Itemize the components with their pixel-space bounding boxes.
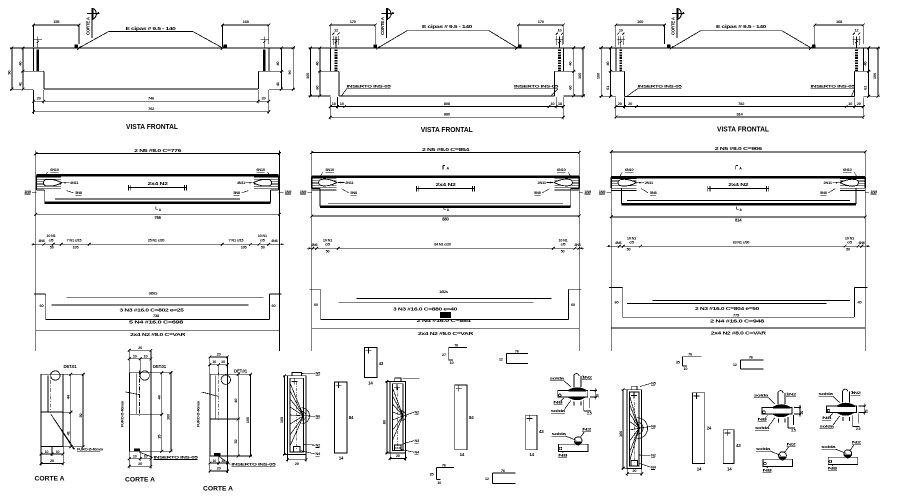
svg-text:20: 20 xyxy=(138,345,142,350)
svg-text:50: 50 xyxy=(261,246,265,250)
svg-text:10: 10 xyxy=(56,450,60,454)
svg-text:170: 170 xyxy=(350,19,357,24)
svg-text:5 N4 #16.0 C=698: 5 N4 #16.0 C=698 xyxy=(129,319,184,324)
svg-text:10 N1: 10 N1 xyxy=(558,238,567,242)
svg-text:63 N1 c/30: 63 N1 c/30 xyxy=(733,241,750,245)
svg-text:20: 20 xyxy=(217,466,221,471)
svg-text:10 N1: 10 N1 xyxy=(46,234,55,238)
svg-text:solda: solda xyxy=(756,446,771,451)
svg-text:84 N1 c/20: 84 N1 c/20 xyxy=(434,243,451,247)
svg-text:2 N5 #8.0 C=776: 2 N5 #8.0 C=776 xyxy=(134,148,182,153)
svg-text:CORTE A: CORTE A xyxy=(86,17,91,35)
svg-text:10: 10 xyxy=(683,366,687,371)
svg-text:100: 100 xyxy=(618,430,623,437)
svg-text:6N10: 6N10 xyxy=(50,167,59,172)
svg-text:168: 168 xyxy=(243,19,250,24)
svg-text:160: 160 xyxy=(637,19,644,24)
svg-text:100: 100 xyxy=(166,413,171,420)
svg-text:60: 60 xyxy=(615,300,619,305)
svg-text:10: 10 xyxy=(619,29,623,33)
svg-text:60: 60 xyxy=(272,303,276,308)
svg-text:c/5: c/5 xyxy=(325,243,330,247)
svg-text:6N10: 6N10 xyxy=(256,167,265,172)
svg-text:100: 100 xyxy=(245,416,250,423)
svg-text:CORTE A: CORTE A xyxy=(35,476,65,483)
svg-text:766: 766 xyxy=(154,215,161,220)
svg-text:1N9: 1N9 xyxy=(285,189,293,194)
svg-text:10: 10 xyxy=(221,359,225,364)
svg-text:10: 10 xyxy=(144,353,148,358)
svg-text:775: 775 xyxy=(733,313,740,318)
svg-text:50: 50 xyxy=(627,248,631,252)
svg-text:14: 14 xyxy=(368,380,373,385)
svg-text:5N8: 5N8 xyxy=(820,190,828,195)
svg-text:4N11: 4N11 xyxy=(237,180,246,185)
svg-text:FURO Ø 40mm: FURO Ø 40mm xyxy=(120,400,125,427)
svg-text:10 N1: 10 N1 xyxy=(258,234,267,238)
svg-text:DET.01: DET.01 xyxy=(234,369,248,374)
svg-text:10: 10 xyxy=(133,353,137,358)
svg-text:25 N1 c/20: 25 N1 c/20 xyxy=(148,239,165,243)
svg-text:VISTA FRONTAL: VISTA FRONTAL xyxy=(717,127,770,134)
svg-text:CORTE A: CORTE A xyxy=(380,17,385,35)
svg-text:24: 24 xyxy=(707,426,712,431)
svg-text:1Ø2s: 1Ø2s xyxy=(439,289,448,294)
svg-text:INSERTO INS-05: INSERTO INS-05 xyxy=(154,454,200,459)
svg-text:4N6: 4N6 xyxy=(574,243,580,247)
svg-text:E cipas # 9.5 - 140: E cipas # 9.5 - 140 xyxy=(126,26,177,31)
svg-text:105: 105 xyxy=(279,416,284,423)
svg-text:solda: solda xyxy=(820,424,835,429)
svg-text:20: 20 xyxy=(217,351,221,356)
svg-text:14: 14 xyxy=(727,466,732,471)
svg-text:16: 16 xyxy=(800,411,804,415)
svg-text:solda: solda xyxy=(819,391,834,396)
svg-text:10: 10 xyxy=(133,455,137,459)
svg-text:c/5: c/5 xyxy=(561,243,566,247)
svg-text:84: 84 xyxy=(349,415,354,420)
svg-text:solda: solda xyxy=(755,425,770,430)
svg-text:10: 10 xyxy=(450,360,454,365)
svg-text:FURO Ø 40mm: FURO Ø 40mm xyxy=(196,400,201,427)
svg-text:solda: solda xyxy=(821,444,836,449)
svg-text:VISTA FRONTAL: VISTA FRONTAL xyxy=(126,124,179,131)
svg-text:762: 762 xyxy=(148,106,155,111)
svg-text:2N11: 2N11 xyxy=(538,180,547,185)
svg-text:84: 84 xyxy=(469,415,474,420)
svg-text:2 N4 #16.0 C=884: 2 N4 #16.0 C=884 xyxy=(417,318,472,323)
svg-text:3 N3 #16.0 C=880 e=40: 3 N3 #16.0 C=880 e=40 xyxy=(393,306,458,311)
svg-text:50: 50 xyxy=(846,248,850,252)
svg-text:6N10: 6N10 xyxy=(843,167,852,172)
svg-text:c/5: c/5 xyxy=(260,239,265,243)
svg-text:168: 168 xyxy=(836,19,843,24)
svg-text:20: 20 xyxy=(632,468,636,473)
svg-text:12: 12 xyxy=(334,29,338,33)
svg-text:20: 20 xyxy=(295,461,299,466)
svg-text:105: 105 xyxy=(73,246,79,250)
svg-text:105: 105 xyxy=(241,246,247,250)
svg-text:10: 10 xyxy=(437,480,441,485)
svg-text:2 N5 #8.0 C=906: 2 N5 #8.0 C=906 xyxy=(715,146,763,151)
svg-text:2x4 N2 #8.0 C=VAR: 2x4 N2 #8.0 C=VAR xyxy=(418,331,475,336)
svg-text:INSERTO INS-05: INSERTO INS-05 xyxy=(514,84,560,89)
svg-text:solda: solda xyxy=(754,393,769,398)
svg-text:60: 60 xyxy=(40,303,44,308)
svg-text:2.5: 2.5 xyxy=(856,427,861,431)
svg-text:E cipas # 9.5 - 140: E cipas # 9.5 - 140 xyxy=(422,24,473,29)
svg-text:1N2: 1N2 xyxy=(786,392,797,397)
svg-text:solda: solda xyxy=(552,431,567,436)
svg-text:27: 27 xyxy=(442,352,446,357)
svg-text:1N9: 1N9 xyxy=(24,189,32,194)
svg-text:100: 100 xyxy=(577,72,582,79)
svg-text:2x4 N2 #8.0 C=VAR: 2x4 N2 #8.0 C=VAR xyxy=(130,332,187,337)
svg-text:5N8: 5N8 xyxy=(534,190,542,195)
svg-text:INSERTO INS-05: INSERTO INS-05 xyxy=(347,84,393,89)
svg-text:CORTE A: CORTE A xyxy=(671,17,676,35)
svg-text:DET.01: DET.01 xyxy=(64,364,78,369)
svg-text:7 N1 c/15: 7 N1 c/15 xyxy=(229,239,244,243)
svg-text:6N10: 6N10 xyxy=(625,167,634,172)
svg-text:4N6: 4N6 xyxy=(38,239,44,243)
svg-text:4N6: 4N6 xyxy=(858,241,864,245)
svg-text:10: 10 xyxy=(212,359,216,364)
svg-text:7 N1 c/15: 7 N1 c/15 xyxy=(67,239,82,243)
svg-text:50: 50 xyxy=(50,246,54,250)
svg-text:CORTE A: CORTE A xyxy=(203,486,233,493)
svg-text:E cipas # 9.5 - 140: E cipas # 9.5 - 140 xyxy=(716,24,767,29)
svg-text:43: 43 xyxy=(736,443,741,448)
svg-text:50: 50 xyxy=(561,250,565,254)
svg-text:1N9: 1N9 xyxy=(599,189,607,194)
svg-text:2 N4 #16.0 C=948: 2 N4 #16.0 C=948 xyxy=(710,318,765,323)
svg-text:738: 738 xyxy=(153,313,160,318)
svg-text:50: 50 xyxy=(326,250,330,254)
svg-text:100: 100 xyxy=(305,72,310,79)
svg-text:5N8: 5N8 xyxy=(650,190,658,195)
svg-text:2N11: 2N11 xyxy=(345,180,354,185)
svg-text:2.5: 2.5 xyxy=(791,429,796,433)
svg-text:16: 16 xyxy=(596,394,600,398)
svg-text:4N6: 4N6 xyxy=(311,243,317,247)
svg-text:2.5: 2.5 xyxy=(587,412,592,416)
svg-text:5N8: 5N8 xyxy=(350,190,358,195)
svg-text:880: 880 xyxy=(444,112,451,117)
svg-text:DET.01: DET.01 xyxy=(153,364,167,369)
svg-text:2N11: 2N11 xyxy=(645,180,654,185)
svg-text:2x4 N2 #8.0 C=VAR: 2x4 N2 #8.0 C=VAR xyxy=(711,331,768,336)
svg-text:4N11: 4N11 xyxy=(70,180,79,185)
svg-text:INSERTO INS-05: INSERTO INS-05 xyxy=(638,84,684,89)
svg-text:10: 10 xyxy=(45,450,49,454)
svg-text:6N10: 6N10 xyxy=(325,167,334,172)
svg-text:20: 20 xyxy=(50,458,54,463)
svg-text:170: 170 xyxy=(538,19,545,24)
svg-text:1N9: 1N9 xyxy=(584,189,592,194)
svg-text:14: 14 xyxy=(529,452,534,457)
svg-text:43: 43 xyxy=(379,361,384,366)
svg-text:746: 746 xyxy=(148,96,155,101)
svg-text:3Ø2s: 3Ø2s xyxy=(149,291,158,296)
svg-text:2 N3 #16.0 C=804 e=50: 2 N3 #16.0 C=804 e=50 xyxy=(695,306,760,311)
svg-text:20: 20 xyxy=(138,461,142,466)
svg-text:814: 814 xyxy=(737,111,744,116)
svg-text:solda: solda xyxy=(550,376,565,381)
svg-text:2x4 N2: 2x4 N2 xyxy=(148,181,169,186)
svg-text:20: 20 xyxy=(396,453,400,458)
svg-text:10 N1: 10 N1 xyxy=(323,238,332,242)
svg-text:4N6: 4N6 xyxy=(271,239,277,243)
svg-text:solda: solda xyxy=(551,408,566,413)
svg-text:INSERTO INS-05: INSERTO INS-05 xyxy=(811,84,857,89)
svg-text:5N8: 5N8 xyxy=(233,190,241,195)
svg-text:16: 16 xyxy=(864,410,868,414)
svg-text:c/5: c/5 xyxy=(847,241,852,245)
svg-text:CORTE A: CORTE A xyxy=(125,477,155,484)
svg-text:1N2: 1N2 xyxy=(851,390,862,395)
svg-text:6N10: 6N10 xyxy=(557,167,566,172)
svg-text:10 N1: 10 N1 xyxy=(845,236,854,240)
svg-text:INSERTO INS-05: INSERTO INS-05 xyxy=(231,462,277,467)
svg-text:3 N3 #16.0 C=802 e=25: 3 N3 #16.0 C=802 e=25 xyxy=(120,307,185,312)
svg-text:10: 10 xyxy=(558,29,562,33)
svg-text:12: 12 xyxy=(855,29,859,33)
svg-text:14: 14 xyxy=(339,456,344,461)
svg-text:c/5: c/5 xyxy=(49,239,54,243)
svg-text:10: 10 xyxy=(212,459,216,463)
svg-text:814: 814 xyxy=(735,218,742,223)
svg-text:14: 14 xyxy=(460,452,465,457)
svg-text:10 N1: 10 N1 xyxy=(627,236,636,240)
svg-text:2 N5 #8.0 C=854: 2 N5 #8.0 C=854 xyxy=(422,147,470,152)
svg-text:60: 60 xyxy=(571,302,575,307)
svg-text:782: 782 xyxy=(738,101,745,106)
svg-text:c/5: c/5 xyxy=(629,241,634,245)
svg-text:2x4 N2: 2x4 N2 xyxy=(436,182,457,187)
svg-text:4N6: 4N6 xyxy=(615,241,621,245)
svg-text:5N8: 5N8 xyxy=(75,190,83,195)
svg-text:40: 40 xyxy=(858,300,862,305)
svg-text:155: 155 xyxy=(53,19,60,24)
svg-text:1N9: 1N9 xyxy=(870,189,878,194)
svg-text:100: 100 xyxy=(596,72,601,79)
svg-text:1N9: 1N9 xyxy=(300,189,308,194)
svg-text:100: 100 xyxy=(872,72,877,79)
svg-text:60: 60 xyxy=(314,302,318,307)
svg-text:2N11: 2N11 xyxy=(824,180,833,185)
svg-text:VISTA FRONTAL: VISTA FRONTAL xyxy=(421,127,474,134)
svg-text:1N2: 1N2 xyxy=(582,375,593,380)
svg-text:14: 14 xyxy=(697,466,702,471)
svg-text:880: 880 xyxy=(442,217,449,222)
svg-text:FURO Ø 40mm: FURO Ø 40mm xyxy=(77,447,104,452)
svg-text:43: 43 xyxy=(539,429,544,434)
svg-text:808: 808 xyxy=(444,101,451,106)
svg-text:2x4 N2: 2x4 N2 xyxy=(728,182,749,187)
